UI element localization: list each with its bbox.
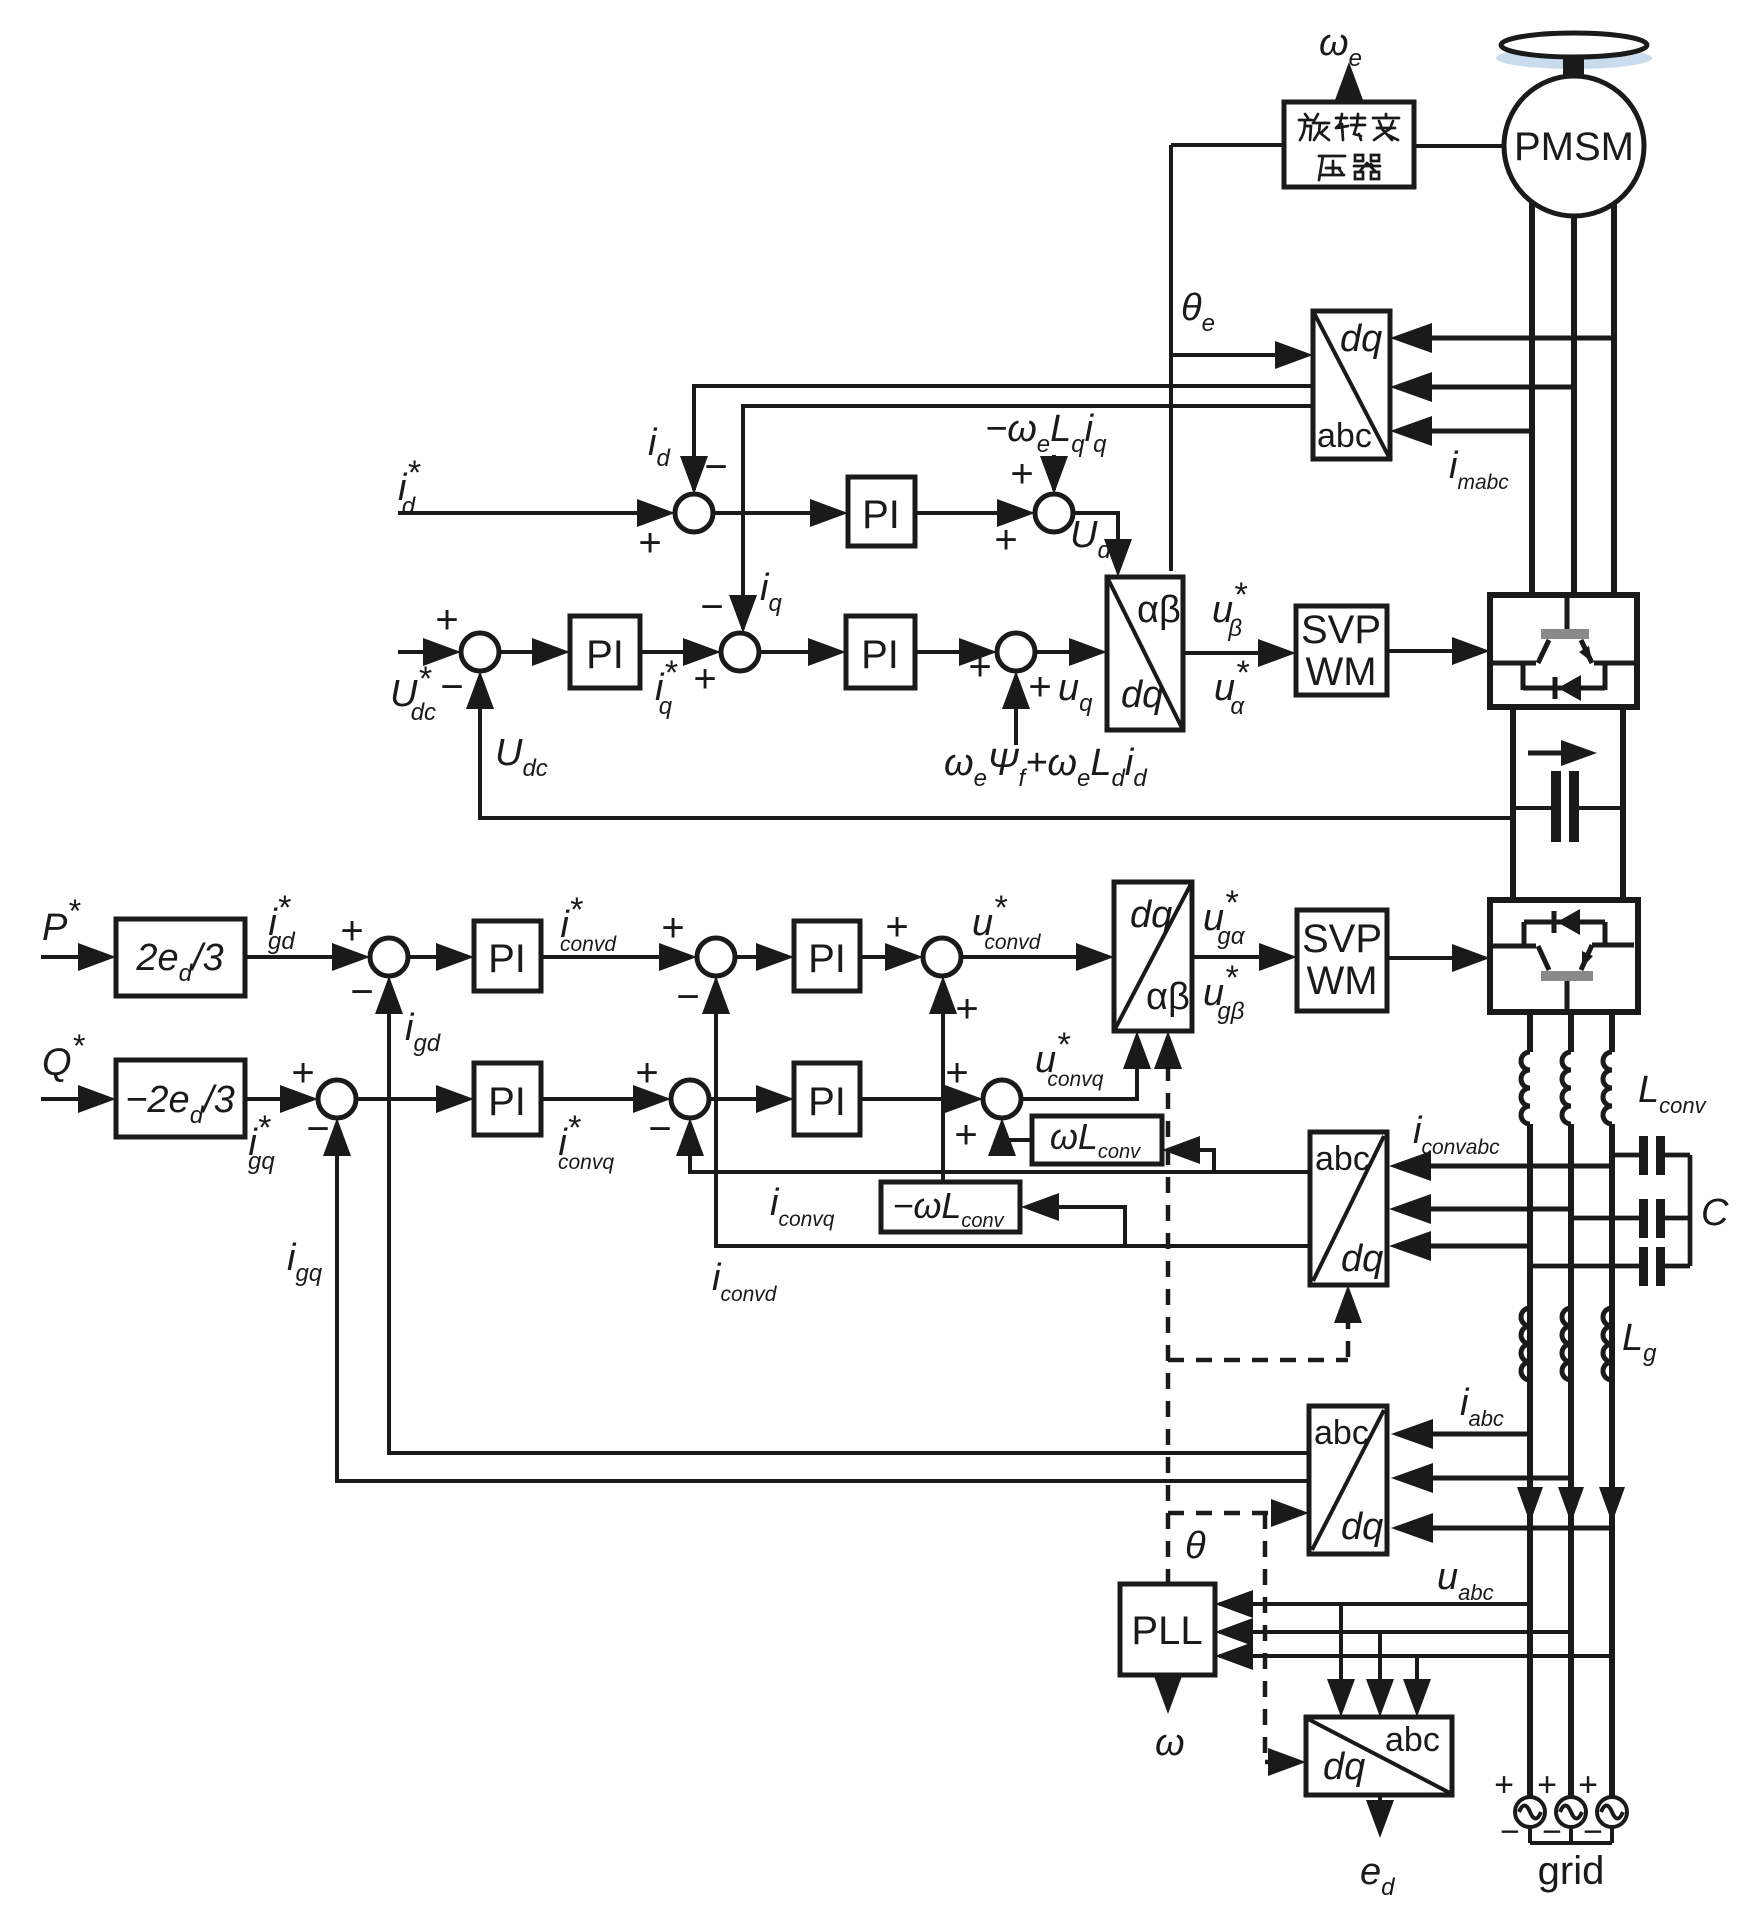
wire gain to SP1 — [245, 955, 364, 959]
svg-text:+: + — [635, 1051, 658, 1095]
IGBT collector bar — [1541, 629, 1589, 639]
svg-text:abc: abc — [1317, 417, 1372, 455]
svg-text:abc: abc — [1314, 1414, 1369, 1452]
SVPWM block 2 — [1297, 910, 1387, 1011]
svg-text:abc: abc — [1385, 1721, 1440, 1759]
PI controller PI7 — [794, 1063, 860, 1135]
wire i_a sense — [1397, 1432, 1530, 1437]
grid IGBT gate lead — [1565, 981, 1570, 1010]
svg-text:PI: PI — [861, 633, 899, 677]
wire resolver to PMSM — [1414, 144, 1504, 148]
svg-text:+: + — [1578, 1766, 1598, 1804]
inductor L_g a — [1521, 1308, 1530, 1380]
transform block abc/dq grid current — [1309, 1406, 1387, 1554]
summing junction S3 Udc — [461, 633, 499, 671]
svg-text:−: − — [1500, 1813, 1520, 1851]
svg-text:WM: WM — [1306, 959, 1377, 1003]
wire theta dashed into abc/dq 1 — [1346, 1294, 1351, 1357]
gain block omega L_conv — [1032, 1116, 1162, 1164]
gain block 2ed/3 — [116, 919, 245, 996]
wire SP1 to PI4 — [408, 955, 468, 959]
svg-text:αβ: αβ — [1146, 976, 1190, 1018]
svg-text:SVP: SVP — [1301, 608, 1381, 652]
svg-text:+: + — [638, 521, 661, 565]
machine phase line c — [1611, 204, 1617, 595]
wire i_convq feedback — [690, 1124, 1309, 1172]
svg-text:+: + — [1537, 1766, 1557, 1804]
svg-text:θ: θ — [1185, 1525, 1206, 1567]
turbine hub — [1563, 56, 1584, 76]
transform block alphabeta/dq machine — [1107, 577, 1183, 730]
wire i_q feedback — [743, 406, 1313, 629]
svg-text:−: − — [1542, 1813, 1562, 1851]
wire u_a drop to dq/abc — [1339, 1604, 1343, 1707]
svg-text:−: − — [704, 445, 727, 489]
DC capacitor left plate — [1551, 771, 1561, 842]
wire PI3 to S5 — [915, 650, 991, 654]
svg-text:+: + — [968, 645, 991, 689]
grid free-wheel diode D2 — [1524, 920, 1605, 925]
svg-text:αβ: αβ — [1137, 589, 1181, 631]
svg-text:dq: dq — [1340, 318, 1382, 360]
transform block dq/abc voltage — [1306, 1717, 1452, 1795]
wire u_c drop to dq/abc — [1415, 1656, 1419, 1707]
svg-text:+: + — [994, 518, 1017, 562]
svg-text:grid: grid — [1538, 1849, 1605, 1893]
AC source Vb — [1556, 1797, 1586, 1827]
wire PI5 to SP3 — [860, 955, 917, 959]
wire PI1 to S2 — [915, 511, 1029, 515]
grid current direction arrow a — [1517, 1487, 1543, 1523]
wire u_a sense into PLL — [1219, 1602, 1530, 1606]
wire resolver to theta_e node — [1171, 143, 1284, 147]
DC power flow arrow — [1528, 751, 1562, 756]
grid bottom bus — [1528, 1827, 1532, 1843]
wire theta dashed to dq/abc output block — [1263, 1513, 1268, 1762]
wire u_b drop to dq/abc — [1378, 1632, 1382, 1707]
svg-text:PI: PI — [808, 1080, 846, 1124]
grid IGBT emitter arrow — [1582, 951, 1593, 968]
summing junction S2 — [1035, 494, 1073, 532]
filter capacitor Cb — [1571, 1216, 1640, 1221]
PI controller PI2 — [570, 616, 640, 688]
free-wheel diode D1 — [1523, 686, 1605, 691]
wire SVPWM1 to machine converter — [1387, 649, 1484, 653]
wire i_convd feedback — [716, 982, 1309, 1246]
wire S1 to PI1 — [713, 511, 842, 515]
transform block abc/dq converter current — [1310, 1132, 1387, 1285]
svg-text:PMSM: PMSM — [1514, 125, 1634, 169]
svg-text:dq: dq — [1323, 1746, 1365, 1788]
wire theta dashed to abc/dq 2 — [1168, 1511, 1296, 1516]
wire i_b sense — [1397, 1476, 1571, 1481]
wire S3 to PI2 — [499, 650, 564, 654]
wire i_c sense — [1397, 1526, 1612, 1531]
wire SVPWM2 to grid converter — [1387, 956, 1484, 960]
wire gain to SQ1 — [245, 1097, 312, 1101]
svg-text:−: − — [306, 1107, 329, 1151]
svg-text:+: + — [945, 1051, 968, 1095]
grid IGBT left leg — [1538, 946, 1549, 970]
wire i_convabc sense top — [1397, 1164, 1612, 1169]
DC capacitor wires — [1513, 806, 1551, 810]
wind turbine blade — [1501, 33, 1647, 57]
DC capacitor right plate — [1569, 771, 1579, 842]
IGBT right leg — [1581, 640, 1592, 663]
summing junction S1 — [675, 494, 713, 532]
gain block -2ed/3 — [116, 1060, 245, 1137]
wire i_convabc sense mid — [1397, 1207, 1571, 1212]
wind turbine blade shadow — [1496, 47, 1652, 69]
wire Q* input — [41, 1097, 110, 1101]
wire e_d output — [1378, 1795, 1382, 1828]
svg-text:PI: PI — [808, 937, 846, 981]
grid phase line c — [1609, 1012, 1615, 1052]
wire -omega L_conv input stub — [1027, 1207, 1125, 1246]
svg-text:−: − — [1583, 1813, 1603, 1851]
wire PI4 to SP2 — [541, 955, 691, 959]
summing junction SQ3 — [983, 1080, 1021, 1118]
svg-text:+: + — [693, 657, 716, 701]
svg-text:dq: dq — [1341, 1506, 1383, 1548]
svg-text:dq: dq — [1130, 894, 1172, 936]
wire u_c sense into PLL — [1219, 1654, 1612, 1658]
wire SQ2 to PI7 — [709, 1097, 788, 1101]
wire i_gd feedback — [389, 982, 1309, 1453]
svg-text:+: + — [340, 909, 363, 953]
wire S5 to alphabeta/dq — [1035, 650, 1101, 654]
IGBT left leg — [1538, 640, 1549, 663]
IGBT emitter arrow — [1579, 646, 1592, 662]
wire i_d feedback — [694, 386, 1313, 490]
wire u_b sense into PLL — [1219, 1630, 1571, 1634]
wire PI6 to SQ2 — [541, 1097, 665, 1101]
summing junction SQ2 — [671, 1080, 709, 1118]
svg-text:+: + — [955, 987, 978, 1031]
grid phase line b — [1568, 1012, 1574, 1052]
transform block dq/abc machine — [1313, 311, 1390, 459]
wire i_mb sense — [1398, 385, 1574, 390]
DC link left rail — [1510, 707, 1516, 900]
PI controller PI3 — [846, 616, 915, 688]
wire SP2 to PI5 — [735, 955, 788, 959]
wire U_dc* input — [398, 650, 455, 654]
svg-text:PI: PI — [488, 937, 526, 981]
svg-text:SVP: SVP — [1302, 917, 1382, 961]
machine-side converter box — [1490, 595, 1637, 707]
svg-text:+: + — [661, 906, 684, 950]
diode branch verticals — [1521, 661, 1526, 690]
IGBT gate lead — [1565, 597, 1570, 631]
grid diode branch verticals — [1522, 922, 1527, 948]
svg-text:dq: dq — [1341, 1238, 1383, 1280]
grid IGBT emitter rails — [1493, 944, 1536, 949]
machine phase line b — [1571, 216, 1577, 595]
grid phase line a — [1527, 1012, 1533, 1052]
resolver box 旋转变压器 — [1284, 102, 1414, 187]
PMSM machine M1 — [1504, 76, 1644, 216]
svg-text:−: − — [648, 1107, 671, 1151]
svg-text:PLL: PLL — [1131, 1609, 1202, 1653]
PI controller PI5 — [794, 921, 860, 991]
wire S2 to alphabeta/dq block — [1073, 513, 1118, 567]
wire PI2 to S4 — [640, 650, 715, 654]
PI controller PI4 — [474, 921, 541, 991]
svg-text:+: + — [1010, 452, 1033, 496]
summing junction SP2 — [697, 938, 735, 976]
wire omega L_conv input stub — [1168, 1150, 1214, 1172]
svg-text:PI: PI — [586, 633, 624, 677]
svg-text:ω: ω — [1155, 1722, 1185, 1764]
summing junction S5 — [997, 633, 1035, 671]
wire theta_e vertical — [1169, 145, 1173, 571]
svg-text:+: + — [954, 1113, 977, 1157]
wire i_d* input — [398, 511, 669, 515]
svg-text:dq: dq — [1121, 674, 1163, 716]
grid IGBT collector bar — [1541, 971, 1593, 981]
wire U_dc feedback — [480, 677, 1513, 818]
transform block dq/alphabeta grid — [1114, 882, 1192, 1031]
wire omega L_conv output to SQ3 — [1002, 1124, 1032, 1140]
PLL block — [1120, 1584, 1215, 1675]
wire i_convabc sense bottom — [1397, 1244, 1530, 1249]
wire -wLqiq into S2 — [1052, 455, 1056, 490]
wire i_mc sense — [1398, 429, 1532, 434]
summing junction SP1 — [370, 938, 408, 976]
wire -omega L_conv output to SP3 — [941, 982, 945, 1182]
filter capacitor Ca — [1612, 1153, 1640, 1158]
svg-text:−: − — [676, 975, 699, 1019]
wire feedforward into S5 — [1014, 677, 1018, 745]
wire PI7 to SQ3 — [860, 1097, 977, 1101]
inductor L_g c — [1603, 1308, 1612, 1380]
AC source Va — [1515, 1797, 1545, 1827]
wire dq/alphabeta to SVPWM2 — [1192, 955, 1291, 959]
summing junction SQ1 — [318, 1080, 356, 1118]
inductor L_g b — [1562, 1308, 1571, 1380]
svg-text:PI: PI — [488, 1080, 526, 1124]
PI controller PI6 — [474, 1063, 541, 1135]
AC source Vc — [1597, 1797, 1627, 1827]
wire SQ3 to dq/alphabeta bottom — [1021, 1037, 1137, 1099]
filter capacitor Cc — [1530, 1264, 1640, 1269]
wire theta_e branch to dq/abc — [1171, 353, 1307, 357]
svg-text:C: C — [1701, 1192, 1729, 1234]
svg-text:+: + — [1028, 665, 1051, 709]
grid-side converter box — [1490, 900, 1638, 1012]
capacitor common bus — [1688, 1155, 1693, 1266]
wire alphabeta/dq to SVPWM1 — [1183, 651, 1290, 655]
svg-text:abc: abc — [1315, 1140, 1370, 1178]
summing junction S4 — [721, 633, 759, 671]
wire i_ma sense — [1398, 336, 1614, 341]
DC link right rail — [1620, 707, 1626, 900]
svg-text:+: + — [885, 905, 908, 949]
wire i_gq feedback — [337, 1124, 1309, 1481]
summing junction SP3 — [923, 938, 961, 976]
gain block -omega L_conv — [881, 1182, 1020, 1232]
wire S4 to PI3 — [759, 650, 840, 654]
grid IGBT right leg — [1581, 945, 1592, 970]
svg-text:−: − — [350, 970, 373, 1014]
svg-text:WM: WM — [1305, 650, 1376, 694]
wire SQ1 to PI6 — [356, 1097, 468, 1101]
grid current direction arrow c — [1599, 1487, 1625, 1523]
svg-text:−: − — [700, 585, 723, 629]
wire P* input — [41, 955, 110, 959]
svg-text:+: + — [1494, 1766, 1514, 1804]
svg-text:+: + — [435, 598, 458, 642]
IGBT emitter rails — [1493, 661, 1536, 666]
svg-text:PI: PI — [862, 493, 900, 537]
PI controller PI1 — [848, 477, 915, 546]
wire theta dashed main vertical — [1166, 1037, 1171, 1584]
omega_e output arrow — [1347, 72, 1351, 102]
svg-text:+: + — [291, 1051, 314, 1095]
grid current direction arrow b — [1558, 1487, 1584, 1523]
wire SP3 to dq/alphabeta — [961, 955, 1108, 959]
svg-text:−: − — [440, 665, 463, 709]
wire PLL omega output — [1166, 1675, 1170, 1706]
SVPWM block 1 — [1296, 606, 1387, 695]
machine phase line a — [1529, 203, 1535, 595]
